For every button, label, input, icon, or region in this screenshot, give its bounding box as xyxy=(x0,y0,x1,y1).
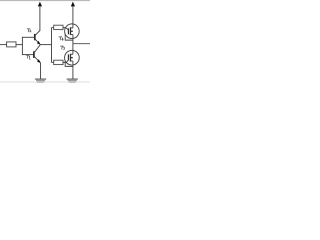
mosfet T4 source stub xyxy=(70,34,72,36)
wire base T2 xyxy=(22,36,34,38)
T3 bulk arrowhead xyxy=(71,57,73,59)
page rule top xyxy=(0,0,90,2)
wire emitter node to gate bus xyxy=(40,44,52,46)
wire T1 emitter to ground xyxy=(40,63,42,79)
mosfet T4 drain stub xyxy=(70,27,72,29)
transistor T1 collector xyxy=(34,45,40,53)
transistor T2 base bar xyxy=(34,34,36,40)
transistor T2 emitter xyxy=(35,39,40,44)
transistor T2 collector xyxy=(35,6,40,35)
wire R1 to input node xyxy=(16,44,23,46)
ground bar left xyxy=(35,78,46,80)
wire T3 source to ground xyxy=(72,61,74,79)
ground bar right xyxy=(67,78,78,80)
wire R2 to gate T4 xyxy=(63,28,68,30)
wire gate bus vertical xyxy=(51,28,53,63)
mosfet T4 circle xyxy=(65,24,80,39)
ground block right xyxy=(68,80,77,83)
wire T4 source to output node xyxy=(72,35,74,44)
label T2 xyxy=(27,29,31,32)
T4 bulk arrowhead xyxy=(71,30,73,32)
mosfet T3 circle xyxy=(65,50,80,65)
wire input left xyxy=(0,44,7,46)
transistor T1 base bar xyxy=(33,51,35,58)
T1 emitter arrowhead xyxy=(37,59,41,63)
mosfet T3 channel bar xyxy=(69,54,71,62)
label T1 xyxy=(26,55,30,59)
wire output to right edge xyxy=(73,43,90,45)
page rule bottom xyxy=(0,81,90,83)
ground block left xyxy=(36,80,45,83)
mosfet T3 bulk stub xyxy=(70,57,72,59)
wire R3 to gate T3 xyxy=(63,60,68,62)
wire T4 drain to supply xyxy=(72,6,74,28)
T2 emitter arrowhead xyxy=(37,41,41,45)
wire T3 bulk tie xyxy=(65,61,73,66)
mosfet T4 gate bar xyxy=(67,28,69,34)
mosfet T3 source stub xyxy=(70,60,72,62)
wire bus to R2 xyxy=(52,27,54,29)
wire bus to R3 xyxy=(52,61,54,63)
supply arrow right head xyxy=(71,2,75,7)
resistor R2 xyxy=(54,25,63,29)
label T3 xyxy=(61,46,65,49)
wire T4 bulk tie xyxy=(65,34,73,40)
mosfet T3 drain stub xyxy=(70,53,72,55)
supply arrow left head xyxy=(38,2,42,7)
label T4 xyxy=(59,37,63,41)
mosfet T4 bulk stub xyxy=(70,30,72,32)
resistor R3 xyxy=(54,60,63,64)
wire output node to T3 drain xyxy=(72,44,74,55)
wire input bus vertical xyxy=(21,37,23,55)
resistor R1 xyxy=(7,42,16,47)
wire base T1 xyxy=(22,54,33,56)
transistor T1 emitter xyxy=(34,57,40,63)
mosfet T3 gate bar xyxy=(67,54,69,60)
mosfet T4 channel bar xyxy=(69,27,71,35)
